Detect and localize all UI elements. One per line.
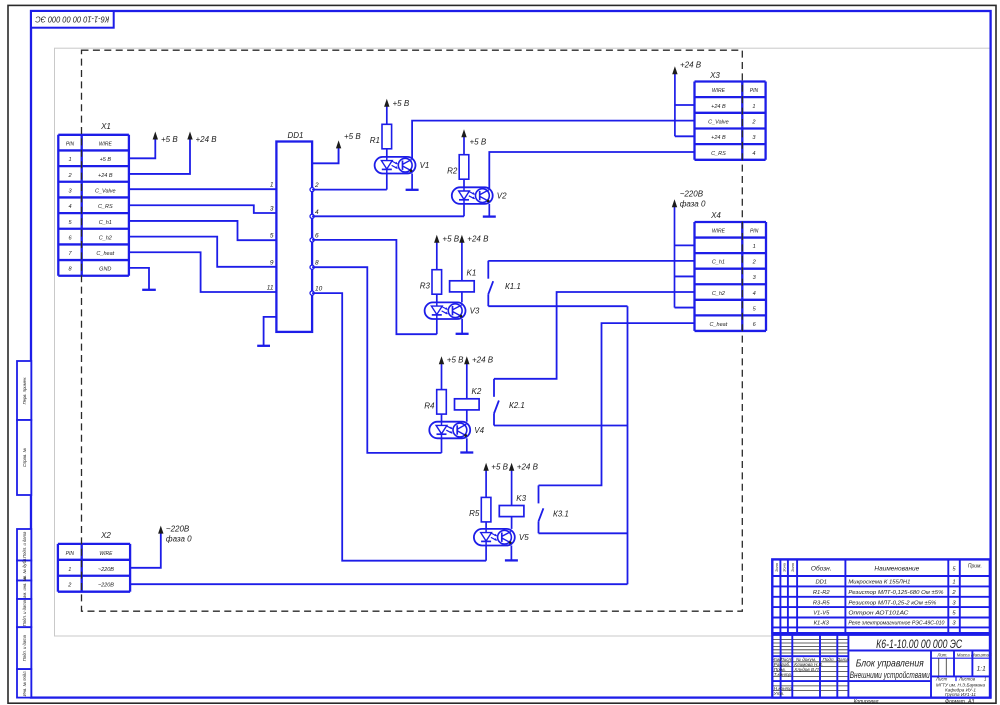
svg-text:~220В: ~220В: [166, 525, 190, 534]
svg-text:Наименование: Наименование: [874, 566, 919, 573]
svg-text:Утв.: Утв.: [774, 691, 784, 696]
svg-text:WIRE: WIRE: [712, 88, 726, 94]
svg-text:Зона: Зона: [791, 563, 795, 572]
svg-text:~220В: ~220В: [98, 567, 114, 573]
svg-text:R1: R1: [370, 136, 380, 145]
svg-text:2: 2: [314, 182, 319, 189]
svg-text:Реле электромагнитное РЭС-49С-: Реле электромагнитное РЭС-49С-010: [848, 621, 944, 627]
svg-text:+24 В: +24 В: [711, 135, 726, 141]
svg-text:Резистор МЛТ-0,125-680 Ом ±5%: Резистор МЛТ-0,125-680 Ом ±5%: [848, 590, 943, 596]
svg-text:Оптрон АОТ101АС: Оптрон АОТ101АС: [848, 611, 908, 617]
svg-text:К6-1-10.00 00 000 ЭС: К6-1-10.00 00 000 ЭС: [876, 639, 963, 651]
svg-text:Зона: Зона: [775, 563, 779, 572]
svg-text:5: 5: [270, 233, 274, 240]
svg-text:C_Valve: C_Valve: [708, 119, 729, 125]
svg-text:Копировал: Копировал: [854, 699, 879, 705]
svg-text:K1: K1: [467, 269, 477, 278]
svg-text:К2.1: К2.1: [509, 401, 525, 410]
svg-text:1: 1: [752, 104, 755, 110]
svg-text:C_h2: C_h2: [99, 235, 112, 241]
svg-text:Листов: Листов: [958, 676, 976, 681]
svg-text:Справ. №: Справ. №: [22, 448, 27, 467]
svg-text:8: 8: [315, 260, 319, 267]
svg-text:+5 В: +5 В: [344, 132, 361, 141]
svg-text:1: 1: [270, 182, 274, 189]
svg-text:X2: X2: [100, 531, 111, 540]
svg-text:Обозн.: Обозн.: [811, 565, 832, 573]
svg-text:GND: GND: [99, 267, 111, 273]
svg-text:Зона: Зона: [783, 563, 787, 572]
svg-text:C_Valve: C_Valve: [95, 188, 116, 194]
svg-text:Дата: Дата: [836, 657, 850, 662]
svg-text:Прим.: Прим.: [968, 564, 982, 570]
svg-text:9: 9: [270, 259, 274, 266]
svg-text:+24 В: +24 В: [472, 356, 494, 365]
svg-text:+24 В: +24 В: [467, 235, 489, 244]
svg-text:WIRE: WIRE: [99, 141, 113, 147]
svg-text:4: 4: [752, 151, 755, 157]
svg-text:WIRE: WIRE: [712, 229, 726, 235]
svg-text:+5 В: +5 В: [470, 138, 487, 147]
svg-text:А3: А3: [967, 699, 974, 705]
svg-text:Группа ИУ1-11: Группа ИУ1-11: [945, 692, 976, 697]
svg-text:R5: R5: [469, 509, 480, 518]
svg-text:Внешними устройствами: Внешними устройствами: [850, 670, 930, 680]
svg-text:K2: K2: [472, 387, 482, 396]
svg-text:C_h1: C_h1: [712, 260, 725, 266]
svg-text:V3: V3: [470, 307, 480, 316]
svg-text:Масштаб: Масштаб: [971, 653, 992, 658]
svg-text:Подп. и дата: Подп. и дата: [22, 599, 27, 626]
svg-text:R4: R4: [424, 402, 435, 411]
svg-text:V1-V5: V1-V5: [813, 611, 830, 617]
svg-text:R2: R2: [447, 167, 458, 176]
svg-text:+24 В: +24 В: [680, 61, 702, 70]
svg-text:C_h2: C_h2: [712, 291, 725, 297]
svg-text:WIRE: WIRE: [99, 551, 113, 557]
svg-text:C_heat: C_heat: [96, 251, 114, 257]
svg-text:Инв. № подл.: Инв. № подл.: [22, 670, 27, 696]
svg-text:+5 В: +5 В: [447, 356, 464, 365]
svg-text:+5 В: +5 В: [442, 235, 459, 244]
svg-text:11: 11: [267, 285, 274, 292]
svg-text:4: 4: [753, 291, 756, 297]
svg-text:1: 1: [753, 244, 756, 250]
svg-text:Резистор МЛТ-0,25-2 кОм ±5%: Резистор МЛТ-0,25-2 кОм ±5%: [848, 600, 936, 606]
svg-text:Подп.: Подп.: [823, 657, 835, 662]
svg-text:1:1: 1:1: [977, 666, 986, 673]
svg-text:К1.1: К1.1: [505, 282, 521, 291]
svg-text:3: 3: [270, 206, 274, 213]
svg-text:1: 1: [68, 567, 71, 573]
svg-text:+5 В: +5 В: [491, 463, 508, 472]
svg-text:1: 1: [68, 157, 71, 163]
svg-text:~220В: ~220В: [98, 583, 114, 589]
svg-text:К1-К3: К1-К3: [814, 621, 830, 627]
svg-text:Хлудов В.П.: Хлудов В.П.: [793, 667, 820, 672]
svg-text:K3: K3: [516, 494, 526, 503]
svg-text:X1: X1: [100, 122, 111, 131]
svg-text:PIN: PIN: [750, 229, 759, 235]
svg-text:1: 1: [952, 580, 955, 586]
svg-text:PIN: PIN: [66, 141, 75, 147]
svg-text:Подп. и дата: Подп. и дата: [22, 634, 27, 661]
svg-text:DD1: DD1: [815, 580, 827, 586]
svg-text:R3: R3: [420, 282, 431, 291]
svg-text:R1-R2: R1-R2: [813, 590, 831, 596]
svg-text:6: 6: [315, 232, 319, 239]
svg-text:Формат: Формат: [945, 699, 965, 705]
svg-text:Лит.: Лит.: [936, 653, 947, 658]
svg-text:4: 4: [315, 209, 319, 216]
svg-text:C_RS: C_RS: [98, 204, 113, 210]
svg-text:V5: V5: [519, 533, 529, 542]
svg-text:К3.1: К3.1: [553, 510, 569, 519]
svg-text:Микросхема К 155ЛН1: Микросхема К 155ЛН1: [848, 580, 910, 586]
svg-text:PIN: PIN: [750, 88, 759, 94]
svg-text:К6-1-10 00 00 000 ЭС: К6-1-10 00 00 000 ЭС: [35, 14, 110, 24]
svg-text:X4: X4: [710, 211, 721, 220]
svg-text:10: 10: [315, 286, 323, 293]
svg-text:PIN: PIN: [66, 551, 75, 557]
svg-text:+24 В: +24 В: [196, 135, 218, 144]
svg-text:X3: X3: [709, 71, 720, 80]
svg-text:Масса: Масса: [957, 653, 971, 658]
svg-text:V2: V2: [497, 192, 507, 201]
svg-text:R3-R5: R3-R5: [813, 600, 831, 606]
svg-text:C_RS: C_RS: [711, 151, 726, 157]
svg-text:Перв. примен.: Перв. примен.: [22, 377, 27, 405]
svg-text:+5 В: +5 В: [100, 157, 112, 163]
svg-text:DD1: DD1: [287, 131, 303, 140]
svg-text:C_h1: C_h1: [99, 220, 112, 226]
svg-text:+5 В: +5 В: [393, 99, 410, 108]
svg-text:+24 В: +24 В: [711, 104, 726, 110]
svg-text:+5 В: +5 В: [161, 135, 178, 144]
svg-text:Блок управления: Блок управления: [856, 659, 925, 670]
svg-text:C_heat: C_heat: [710, 322, 728, 328]
svg-text:+24 В: +24 В: [517, 463, 539, 472]
svg-text:Т.контр.: Т.контр.: [774, 672, 793, 677]
svg-text:4: 4: [68, 204, 71, 210]
svg-text:~220В: ~220В: [680, 190, 704, 199]
svg-text:+24 В: +24 В: [98, 173, 113, 179]
svg-text:фаза 0: фаза 0: [680, 200, 706, 209]
svg-text:Подп. и дата: Подп. и дата: [22, 531, 27, 558]
svg-text:фаза 0: фаза 0: [166, 535, 192, 544]
svg-text:V1: V1: [420, 161, 430, 170]
svg-text:Лист: Лист: [935, 676, 948, 681]
svg-text:V4: V4: [474, 426, 484, 435]
